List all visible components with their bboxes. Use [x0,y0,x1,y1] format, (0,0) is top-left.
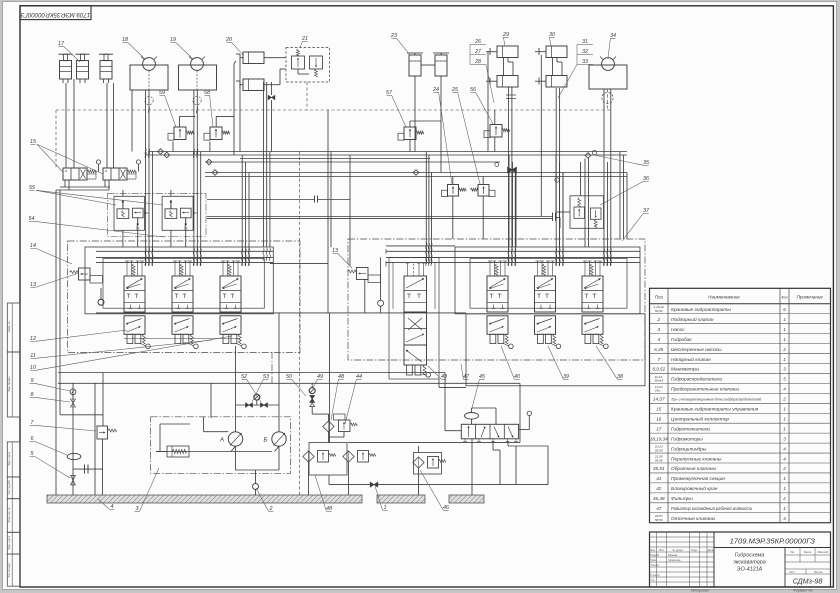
svg-text:4: 4 [657,337,660,342]
pilot drain dashed manifold [56,109,612,111]
left riser to cooler branch [59,190,61,415]
svg-text:7: 7 [657,357,660,362]
distributor section right 1 [487,261,513,349]
svg-text:1709.МЭР.35КР.00000ГЗ: 1709.МЭР.35КР.00000ГЗ [21,11,91,18]
gauge isolator valves 52 53 [246,394,268,407]
svg-text:Насос: Насос [671,327,685,333]
shuttle valve 56 [490,125,502,138]
valve 36b [591,208,602,228]
control block boundary 14 (dash-dot) [68,241,300,352]
svg-text:Дата: Дата [708,549,714,552]
pilot valve group 55 (right pair enclosure) [162,196,193,230]
svg-text:18,19,34: 18,19,34 [650,436,668,441]
wire between cylinders 30 [552,58,554,76]
quick coupling at left column [84,465,86,474]
manifold row y155 [146,154,627,156]
valve 55d [180,208,191,230]
distributor section right 2 [535,261,561,349]
pressure gauge 9 [70,389,76,395]
svg-text:Примечание: Примечание [797,295,824,300]
pump drive shaft [156,451,272,453]
svg-text:8,9,52: 8,9,52 [652,367,665,372]
svg-text:2: 2 [782,397,786,402]
svg-text:Гидросхема: Гидросхема [735,553,765,559]
vertical bundle x509-516 [508,155,510,247]
svg-text:2: 2 [656,317,660,322]
filter-valve pair 44 (upper) [323,414,357,437]
risers motor 34 [603,89,605,155]
gauge 49 with check valve 50 [309,383,328,414]
svg-text:Инв. № дубл.: Инв. № дубл. [8,479,11,494]
svg-text:54,56: 54,56 [655,458,663,462]
svg-text:38и43: 38и43 [654,379,663,383]
svg-text:Блокировочный кран: Блокировочный кран [671,485,718,492]
brake valve 59 [174,127,186,140]
link enclosure 41 to right body [438,379,440,387]
left distributor housing [85,247,273,314]
svg-text:Юрьева: Юрьева [668,554,678,557]
risers cylinder 30 [540,55,542,217]
risers valves 24 25 [452,196,454,239]
svg-text:Лит.: Лит. [790,551,795,554]
hydraulic motor 19 [179,57,217,91]
hydraulic motor 18 [130,57,168,91]
svg-text:58,59: 58,59 [655,518,663,522]
connectors pilot group 55 to collector [122,190,124,196]
riser to valve block 36 [580,162,582,196]
svg-text:Н.контр.: Н.контр. [651,574,661,577]
svg-text:Справ. №: Справ. № [8,321,11,332]
svg-text:4: 4 [783,456,786,461]
svg-text:3: 3 [657,327,660,332]
svg-text:35,51: 35,51 [653,466,665,471]
left riser to tank [55,190,57,495]
left sections drain row [124,338,240,340]
wires filter block [328,437,330,443]
svg-text:1: 1 [783,476,786,481]
svg-text:3: 3 [783,436,786,441]
distributor section right 3 [582,261,608,349]
verticals x328-331 [327,110,329,313]
svg-text:Крановые гидроаппараты управле: Крановые гидроаппараты управления [671,407,759,413]
collector pass-through on motor 18 drain [145,96,153,104]
return manifold y372 [58,372,445,374]
hydrocylinder 20 (lower) [236,79,264,91]
svg-text:Б: Б [264,438,268,444]
wires valve 42 [471,408,473,413]
pump B [264,432,287,446]
pump unit boundary 3 (dash-dot) [151,417,291,474]
hydrocylinder 23 left [407,53,423,76]
right distributor lower body [466,314,645,386]
housing bottom channel line [96,312,466,314]
svg-text:1: 1 [783,407,786,412]
svg-text:46,48: 46,48 [653,496,665,501]
left group inter-section risers [145,90,147,266]
svg-text:4: 4 [783,446,786,451]
blocking valve 42 (lever operated) [461,411,531,441]
svg-text:А: А [219,438,224,444]
hydraulic motor 34 (swing) [589,57,627,90]
svg-text:47: 47 [656,506,662,511]
svg-text:2: 2 [782,347,786,352]
svg-text:Перв. примен.: Перв. примен. [8,376,11,392]
svg-text:Перепускные клапаны: Перепускные клапаны [671,456,722,462]
manifold row y162 [205,161,500,163]
brake valve 58 to cylinder 20 wire [215,116,217,127]
svg-text:Гидротолкатели: Гидротолкатели [671,426,710,432]
pilot valve group 55 (left pair enclosure) [114,196,144,230]
svg-text:2: 2 [782,496,786,501]
svg-text:33: 33 [582,59,588,65]
svg-text:Т.контр.: Т.контр. [651,564,660,567]
vertical bundle x426-431 [425,152,427,265]
svg-text:25и...: 25и... [654,389,663,393]
manifold row y151 [148,151,627,153]
svg-text:1: 1 [783,426,786,431]
valve 55c [165,200,177,218]
control block boundary 37 (dash-dot) [348,239,645,360]
relief valve in block 21 right [310,56,323,77]
svg-text:1: 1 [783,506,786,511]
risers cylinder 29 / valve 56 [487,52,489,152]
svg-text:1: 1 [783,327,786,332]
port circle at section 43 [380,257,382,300]
distributor section left 3 [220,261,246,349]
port circle on row 162 [495,163,499,167]
distributor section (boom) left 1 [124,261,150,349]
filter 48a [303,451,336,463]
svg-text:Пров.: Пров. [651,559,658,562]
svg-text:Фильтры: Фильтры [671,496,693,502]
pump inlet lines from manifold [210,383,212,418]
svg-text:4: 4 [783,387,786,392]
svg-text:6,45: 6,45 [654,347,663,352]
drain dashed riser x299 [299,152,301,496]
shut-off on cylinder 20 drain [268,95,275,99]
svg-text:26: 26 [474,39,481,45]
heat exchanger 6 (ellipse) [67,453,81,459]
valve block 36 (enclosure) [570,196,604,229]
valve 55b [132,208,143,230]
distributor section left 2 [172,261,198,349]
svg-text:Подпорный клапан: Подпорный клапан [671,316,714,323]
shut-off valve 1 [370,482,378,487]
check valve near pump lines [100,301,102,303]
suction strainer 2 [253,484,259,490]
svg-text:Кол: Кол [781,296,787,300]
svg-text:Формат А1: Формат А1 [793,589,813,593]
svg-text:27: 27 [474,49,482,55]
vertical bundle x556-563 [555,155,557,206]
svg-text:Взам. инв. №: Взам. инв. № [8,507,11,522]
coupling branch line [73,468,103,470]
svg-text:Напорный клапан: Напорный клапан [671,356,711,363]
risers from thruster cylinders 17 to unit 15 [65,83,67,168]
shut-off valve 5 (vertical) [71,476,76,481]
pilot thruster cylinders group 17 [59,54,73,83]
manifold row y158 [240,158,430,160]
hydrocylinder 30 (upper) [535,46,567,58]
gauge port circle at left housing [98,299,104,305]
svg-text:Утв.: Утв. [651,579,656,582]
servo cylinder in pump unit [156,446,189,457]
accumulator 45 (ellipse) [465,413,479,420]
svg-text:1709.МЭР.35КР.00000ГЗ: 1709.МЭР.35КР.00000ГЗ [730,537,816,546]
svg-text:Наименование: Наименование [708,295,740,300]
central collector 16 (dashed circle) [602,92,613,103]
vertical bundle x585-592 [584,159,586,248]
valve 36a [574,198,585,219]
manifold row y176 [205,176,627,178]
svg-text:Лист: Лист [789,571,795,574]
relief valve (second) near section 43 [348,268,381,313]
svg-text:41: 41 [656,476,662,481]
port circle on row 176 [555,178,559,182]
svg-text:28: 28 [474,59,481,65]
risers cylinder 23 and valve 57 [414,76,416,152]
left group rails [96,250,273,252]
svg-text:Промежуточная секция: Промежуточная секция [671,476,725,482]
svg-text:Поз: Поз [655,295,664,300]
svg-text:Масса: Масса [804,551,812,554]
collector pass-through on motor 19 drain [193,96,201,104]
svg-text:Шестеренные насосы: Шестеренные насосы [671,347,722,353]
svg-text:5: 5 [783,377,786,382]
svg-text:16: 16 [656,416,662,421]
riser to tank x95 [94,383,96,495]
svg-text:Манометры: Манометры [671,367,700,373]
riser from motor 18 left port [131,90,133,152]
drain manifold y484 [329,484,548,486]
pilot control unit 15 (right block) [103,160,141,180]
brake valve 57 [404,127,416,140]
filter block 48 (lower enclosure) [309,443,347,476]
wire between cylinders 29 [503,58,505,76]
filter 48b [343,451,376,463]
wires of block 36 [556,211,570,213]
svg-text:1: 1 [783,357,786,362]
svg-text:1: 1 [783,486,786,491]
right group rails [386,245,455,247]
svg-text:1: 1 [783,317,786,322]
return line y442 [348,441,520,443]
svg-text:Подп. и дата: Подп. и дата [8,535,11,550]
svg-text:32: 32 [582,49,588,55]
svg-text:Герасимов: Герасимов [668,559,681,562]
right distributor housing [455,247,640,314]
svg-text:Отсечные клапаны: Отсечные клапаны [671,516,716,522]
svg-text:3: 3 [783,367,786,372]
hydrocylinder 20 (upper) [236,52,264,64]
pump suction lines [235,446,237,470]
coupling marks on riser [508,167,513,173]
svg-text:1: 1 [783,416,786,421]
hydrocylinder 29 (lower) [486,76,518,88]
svg-text:Копировал: Копировал [691,589,709,593]
return manifold y383 [58,382,520,384]
svg-text:Радиатор охлаждения рабочей жи: Радиатор охлаждения рабочей жидкости [671,506,753,511]
svg-text:СДМз-98: СДМз-98 [793,577,823,586]
relief valve in block 21 left [292,49,305,69]
svg-text:Подп. и дата: Подп. и дата [8,451,11,466]
pump pressure risers [235,346,237,432]
hydrocylinder 29 (upper) [486,46,518,58]
svg-text:Подп.: Подп. [691,549,698,552]
left instrument column [72,383,74,495]
brake valve 59 to motor 19 wire [179,116,181,127]
manifold row y172 [205,172,627,174]
relief valve 25 [478,185,489,197]
svg-text:Крановые гидроаппараты: Крановые гидроаппараты [671,307,731,313]
svg-text:2: 2 [782,466,786,471]
pilot valve assembly 54 (dash-dot enclosure) [108,193,207,236]
svg-text:Гидроцилиндры: Гидроцилиндры [671,446,707,452]
verticals x350 [349,155,351,266]
svg-text:4: 4 [783,516,786,521]
svg-text:42: 42 [656,486,662,491]
brake valve 58 [210,127,222,140]
valve 55a [117,200,129,218]
svg-text:Гидрораспределители: Гидрораспределители [671,377,722,383]
svg-text:Гидромоторы: Гидромоторы [671,436,703,442]
svg-text:Гидробак: Гидробак [671,337,692,343]
check valves on manifold rows [158,149,164,155]
svg-text:Центральный коллектор: Центральный коллектор [671,415,729,422]
filter 46 group [413,446,446,495]
overcenter valve block 21 (dashed enclosure) [286,48,330,83]
quick coupling right [552,213,554,222]
right group inter-section risers [508,155,510,266]
pilot rows y216-218 [207,216,553,218]
svg-text:Обратные клапаны: Обратные клапаны [671,466,716,472]
svg-text:Предохранительные клапаны: Предохранительные клапаны [671,387,739,393]
pump A [219,432,243,446]
vertical bundle x620-627 [619,152,621,240]
svg-text:17: 17 [656,426,662,431]
svg-text:6: 6 [783,307,786,312]
svg-text:Масштаб: Масштаб [818,551,829,554]
riser from block 21 [306,82,308,110]
wires cylinder 20 to block 21 [264,57,286,59]
check valve 8 [71,399,76,407]
hydrocylinder 30 (lower) [535,76,567,88]
pilot feed line y199 [207,199,315,201]
svg-text:ЭО-4121А: ЭО-4121А [737,567,763,573]
back-pressure valve 7 [97,426,116,439]
risers cylinder 20 circuit [239,61,241,152]
svg-text:№ докум.: № докум. [673,549,684,552]
svg-text:31: 31 [582,39,588,45]
wires below pilot units 15 [64,180,66,187]
document number box (rotated, top-left) [20,6,91,20]
intermediate tall distributor section 43 [404,263,431,377]
relief valve 13 at collector [70,268,103,283]
quick coupling on pilot line [314,196,316,203]
svg-text:экскаватора: экскаватора [733,560,766,566]
svg-text:15: 15 [656,407,662,412]
title block [650,532,831,587]
svg-text:14,37: 14,37 [653,397,665,402]
hydrocylinder 23 right [433,53,449,76]
svg-text:Разраб.: Разраб. [651,554,660,557]
intermediate section 41 enclosure [389,257,439,379]
dash-dot divider x272 [271,352,273,385]
svg-text:Три- и четырехсекционные блоки: Три- и четырехсекционные блоки гидрорасп… [671,398,761,402]
relief valve 24 [448,185,459,197]
svg-text:Инв. № подл.: Инв. № подл. [8,562,11,577]
svg-text:Листов: Листов [814,571,823,574]
crossing jogs on riser bundles [145,248,146,254]
left margin attribute boxes [7,303,20,352]
svg-text:50,51: 50,51 [655,309,663,313]
svg-text:Лист: Лист [659,549,665,552]
svg-text:26-28: 26-28 [654,448,663,452]
svg-text:1: 1 [783,337,786,342]
parts list table [650,288,831,522]
crossing jogs at manifold rows [145,149,146,155]
svg-text:Изм.: Изм. [650,549,656,552]
gauge manifold line pumps A-B [236,404,280,406]
branch riser x103 [102,373,104,427]
pilot control unit 15 (left block) [63,160,101,180]
